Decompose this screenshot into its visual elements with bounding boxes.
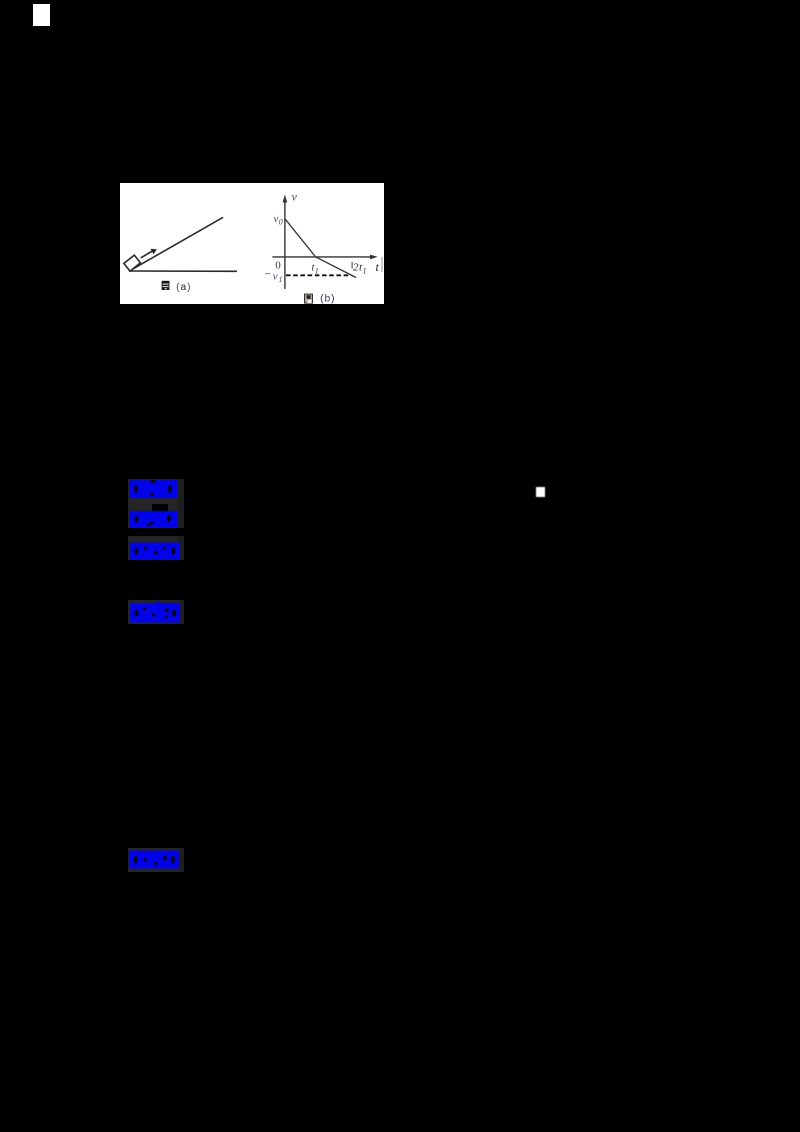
transparent-white artifact rectangle top-left [33,4,50,26]
figure (b) caption 图（b） [304,294,336,306]
figure (b) dashed -v1 line [286,274,351,276]
figure (a) arrow shaft [141,251,154,258]
svg-text:t: t [376,260,380,274]
blue marker 5 [129,850,179,869]
figure (b) faint bar right [381,257,383,272]
svg-text:−: − [265,269,271,281]
figure (b) labels [265,190,380,285]
svg-text:v: v [273,271,278,283]
marker block 1+2 gray background [128,479,184,528]
figure (a) block [124,255,140,271]
svg-text:0: 0 [279,218,283,227]
figure (b) v-t line part1 [285,219,315,257]
figure image white box [120,183,384,304]
marker 5 gray background [128,848,184,872]
figure (a) incline [129,217,223,271]
black notch between marker 1 and 2 [152,504,168,512]
figure (b) tick at 2t1 [351,262,353,269]
blue marker 2 [129,511,179,528]
svg-text:): ) [185,282,191,294]
small white square right [536,487,545,497]
marker 3 gray background [128,536,184,560]
svg-text:1: 1 [363,267,367,276]
figure (b) v-t line part2 [316,257,356,278]
svg-text:v: v [274,213,279,225]
figure (a) ground [129,270,237,272]
svg-text:1: 1 [279,275,283,284]
svg-text:v: v [292,190,298,204]
blue marker 1 [129,480,179,498]
figure (b) t-axis [272,256,372,258]
marker 4 gray background [128,600,184,624]
figure (b) v-axis [284,200,286,289]
svg-text:1: 1 [315,267,319,276]
figure (a) caption 图（a） [162,281,192,294]
figure (a) arrowhead [151,249,157,255]
blue marker 3 [130,542,180,560]
svg-text:): ) [329,294,335,304]
blue marker 4 [130,601,180,623]
